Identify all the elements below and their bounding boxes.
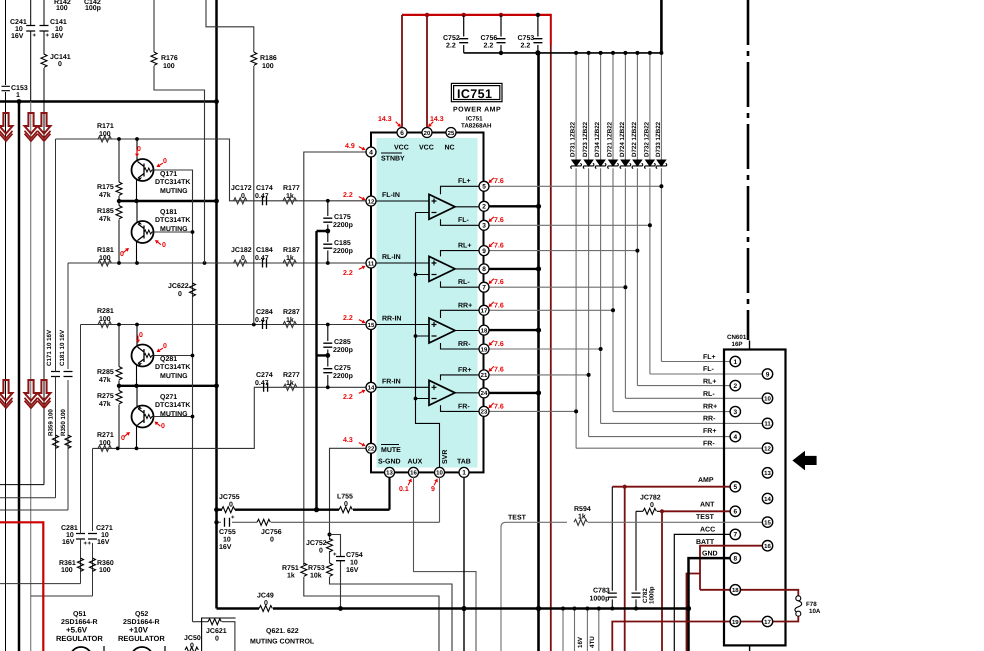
svg-text:8: 8 [733,555,737,562]
svg-text:FL-IN: FL-IN [382,192,400,199]
svg-text:2200p: 2200p [333,347,353,354]
wire: R181 row (RL input) [68,262,371,264]
node [117,199,121,203]
pin 22 IC751 [366,443,376,453]
svg-text:C281: C281 [61,525,78,532]
svg-text:14.3: 14.3 [378,116,392,123]
svg-text:16V: 16V [11,33,24,40]
red hollow arrow 1c [38,113,51,141]
red voltage 0.1 [399,479,412,494]
svg-text:2.2: 2.2 [484,43,494,50]
svg-text:R271: R271 [97,432,114,439]
wire: muting ground row 1 (thick) [118,200,217,202]
wire: GND row (thick) [689,558,731,651]
capacitor C281 (electrolytic) [76,534,85,540]
svg-text:7.6: 7.6 [494,217,504,224]
svg-text:0: 0 [215,636,219,643]
resistor R361 [78,558,84,571]
dash-dot page border [747,0,750,340]
svg-text:C174: C174 [256,185,273,192]
capacitor C756 [500,15,502,53]
svg-text:RR+: RR+ [703,403,717,410]
svg-text:7.6: 7.6 [494,178,504,185]
capacitor C181 (rotated electrolytic) [64,372,73,377]
red hollow arrow 2c [38,380,51,408]
capacitor C274 [264,383,268,392]
transistor Q51 circle [70,647,92,651]
svg-text:100: 100 [56,5,68,12]
pin 6 IC751 [397,128,407,138]
svg-text:10A: 10A [809,608,821,615]
node [326,323,330,327]
red voltage 2.2 [343,192,366,200]
svg-text:L755: L755 [337,494,353,501]
svg-text:11: 11 [764,421,771,428]
wire: L755 thick row [217,509,390,511]
wire: Q621 box partial [202,618,236,651]
svg-text:19: 19 [732,619,739,626]
svg-text:R361: R361 [59,560,76,567]
svg-text:1: 1 [733,359,737,366]
svg-text:18: 18 [732,587,739,594]
svg-text:IC751: IC751 [457,87,492,101]
arrow marker left [792,451,816,471]
svg-text:JC622: JC622 [168,283,189,290]
svg-text:16V: 16V [51,33,64,40]
transistor Q181 [132,201,193,263]
svg-text:0: 0 [178,291,182,298]
svg-text:100p: 100p [85,5,101,12]
inductor L755 [339,507,352,513]
node [326,261,330,265]
resistor R177 [283,198,296,204]
node [585,607,589,611]
resistor R594 [574,519,587,525]
pin 9 IC751 [479,246,489,256]
svg-text:R185: R185 [97,208,114,215]
svg-text:13: 13 [386,470,393,477]
svg-text:D723 1ZB22: D723 1ZB22 [582,121,589,157]
svg-text:47k: 47k [99,191,111,199]
svg-text:C274: C274 [256,372,273,379]
wire: SVR row [217,477,440,522]
wire: thick vertical top right [660,0,663,53]
zener diode D733 1ZB22 [655,51,667,362]
svg-text:FR-IN: FR-IN [382,379,401,386]
red voltage 7.6 [489,217,504,224]
capacitor C175 [327,201,329,231]
svg-text:R287: R287 [283,309,300,316]
wire: output RR+ to connector [489,310,730,411]
pin 17 CN601 [762,616,772,626]
capacitor C752 [463,15,465,53]
red voltage 0 [157,158,168,167]
svg-text:11: 11 [368,260,375,267]
node [499,13,503,17]
wire: AUX drop [414,477,477,651]
svg-text:1k: 1k [286,379,294,387]
wire: drop1 [562,609,564,651]
zener diode D723 1ZB22 [582,51,594,437]
wire: PGND vertical [537,53,540,651]
node [117,137,121,141]
svg-text:1k: 1k [286,192,294,200]
svg-text:AMP: AMP [698,477,714,484]
red voltage 0 [136,332,143,343]
svg-text:0: 0 [344,501,348,508]
wire: CN601 top stub [749,341,751,350]
pin 18 IC751 [479,325,489,335]
svg-text:D721 1ZB22: D721 1ZB22 [607,121,614,157]
svg-text:Q271: Q271 [160,394,177,401]
svg-text:D724 1ZB22: D724 1ZB22 [619,121,626,157]
transistor Q171 [132,139,193,622]
svg-text:10: 10 [350,560,358,567]
svg-text:R171: R171 [97,123,114,130]
pin 23 IC751 [479,406,489,416]
svg-text:FL-: FL- [458,217,470,224]
pin 1 CN601 [730,356,740,366]
pin 11 CN601 [762,418,772,428]
node [686,606,691,611]
resistor R277 [284,384,297,390]
wire: VCC drop to pin 20 [426,15,428,127]
svg-text:C755: C755 [219,529,236,536]
red voltage 4.3 [343,437,366,446]
svg-text:1: 1 [16,92,20,99]
pin 13 IC751 [385,467,395,477]
svg-text:C141: C141 [50,19,67,26]
svg-text:FR+: FR+ [458,367,471,374]
resistor JC621 [193,622,235,651]
svg-text:JC49: JC49 [257,593,274,600]
svg-text:1k: 1k [578,513,586,521]
svg-text:6: 6 [733,509,737,516]
svg-text:C752: C752 [443,35,460,42]
capacitor C284 [263,320,267,329]
svg-text:25: 25 [448,130,455,137]
svg-text:Q621. 622: Q621. 622 [266,628,299,635]
svg-text:0.1: 0.1 [399,486,409,493]
pin 2 IC751 [479,201,489,211]
svg-text:7.6: 7.6 [494,341,504,348]
capacitor C241 (electrolytic) [30,0,32,102]
svg-text:+: + [33,33,37,39]
svg-text:15: 15 [368,322,375,329]
capacitor C153 [2,86,10,90]
svg-text:Q51: Q51 [73,611,86,618]
svg-text:R177: R177 [283,185,300,192]
wire: R176 bias feed [154,0,205,263]
svg-text:3: 3 [482,223,486,230]
resistor R171 [98,136,111,142]
svg-text:100: 100 [99,567,111,574]
svg-text:RR-: RR- [458,341,471,348]
pin 25 IC751 [446,128,456,138]
svg-text:7.6: 7.6 [494,243,504,250]
resistor JC172 [234,198,247,204]
svg-text:GND: GND [702,551,718,558]
node [214,383,219,388]
resistor JC49 [259,606,272,612]
wire: PGND row pin24 [489,392,539,394]
node [597,607,601,611]
svg-text:R753: R753 [308,565,325,572]
svg-text:23: 23 [481,409,488,416]
wire: VCC red top rail [402,14,551,16]
node [117,261,121,265]
svg-text:RL+: RL+ [458,243,471,250]
IC751 cyan body [377,138,478,468]
svg-text:DTC314TK: DTC314TK [155,179,190,186]
node [135,137,139,141]
svg-text:D733 1ZB22: D733 1ZB22 [655,121,662,157]
wire: FR+ tap [441,375,480,380]
resistor R285 [116,367,122,380]
red hollow arrow 1b [25,113,38,141]
svg-text:4: 4 [733,434,737,441]
node [134,384,138,388]
node [660,509,664,513]
svg-text:C285: C285 [334,339,351,346]
svg-text:TEST: TEST [508,515,527,522]
svg-text:1k: 1k [286,254,294,262]
wire: red power wire bottom left [0,522,43,651]
svg-text:10: 10 [764,396,771,403]
red voltage 2.2 [343,266,366,277]
svg-text:24: 24 [481,390,488,397]
pin 8 CN601 [730,553,740,563]
wire: muting ground row 2 (thick) [118,385,217,387]
svg-text:R187: R187 [283,247,300,254]
wire: drop3 [586,609,588,651]
resistor R281 [98,322,111,328]
svg-text:1: 1 [462,470,466,477]
transistor Q52 circle [131,647,153,651]
svg-text:VCC: VCC [394,145,409,152]
IC751 outline [371,133,484,473]
pin 16 CN601 [762,541,772,551]
svg-text:C275: C275 [334,365,351,372]
svg-text:47k: 47k [99,400,111,408]
svg-text:3: 3 [733,409,737,416]
svg-text:JC50: JC50 [184,635,201,642]
svg-text:16: 16 [410,470,417,477]
svg-text:RR-IN: RR-IN [382,316,401,323]
resistor R360 [90,558,96,571]
node [325,353,330,358]
svg-text:14.3: 14.3 [430,116,444,123]
node [425,13,429,17]
node [414,397,418,401]
svg-text:ACC: ACC [700,527,715,534]
wire: main ground spine [215,0,218,609]
svg-text:D732 1ZB22: D732 1ZB22 [643,121,650,157]
wire: thick S-GND vertical with stubs [317,231,328,510]
node [326,199,330,203]
IC751 boxed title [451,83,502,101]
svg-text:C153: C153 [11,85,28,92]
svg-text:1k: 1k [287,572,295,580]
resistor JC182 [234,260,247,266]
svg-text:2200p: 2200p [333,373,353,380]
svg-text:F78: F78 [806,601,817,608]
wire: FR- tap [441,405,480,411]
wire: PGND row pin18 [489,329,539,331]
svg-text:2.2: 2.2 [343,192,353,199]
wire: STNBY line from pin4 [304,152,366,565]
node [573,607,577,611]
wire: signal line x80.5 (RR feed) [0,325,81,584]
svg-text:JC172: JC172 [231,185,252,192]
pin 5 CN601 [730,482,740,492]
capacitor C782 [635,511,637,608]
svg-text:2200p: 2200p [333,222,353,229]
pin 21 IC751 [479,370,489,380]
node [117,323,121,327]
node [536,328,541,333]
svg-text:R359 100: R359 100 [48,409,55,436]
svg-text:0.47: 0.47 [255,255,269,262]
wire: TAB drop [463,477,465,651]
svg-text:10k: 10k [310,572,322,580]
pin 11 IC751 [366,258,376,268]
red voltage 7.6 [489,302,504,310]
pin 8 IC751 [479,264,489,274]
svg-text:FR+: FR+ [703,428,716,435]
red voltage 14.3 [378,116,401,127]
svg-text:10: 10 [101,532,109,539]
pin 14 IC751 [366,382,376,392]
node [634,607,638,611]
svg-text:FR-: FR- [703,440,715,447]
resistor R751 [301,563,307,576]
svg-text:RL-: RL- [458,279,470,286]
svg-text:Q281: Q281 [160,356,177,363]
svg-text:1000p: 1000p [649,586,656,604]
capacitor C171 (rotated electrolytic) [51,372,60,377]
svg-text:0: 0 [229,502,233,509]
svg-text:0: 0 [58,61,62,68]
svg-text:2200p: 2200p [333,248,353,255]
svg-text:RR+: RR+ [458,303,472,310]
svg-text:7.6: 7.6 [494,279,504,286]
wire: pin13 drop [388,478,390,510]
node [499,51,503,55]
svg-text:R594: R594 [574,506,591,513]
svg-text:16: 16 [764,543,771,550]
resistor R185 [116,206,122,219]
resistor JC782 [643,508,656,514]
wire: PGND row pin2 [489,205,539,207]
svg-text:7.6: 7.6 [494,367,504,374]
capacitor C271 (electrolytic) [88,534,97,540]
node [252,323,256,327]
wire: output FL+ to connector [489,186,730,361]
wire: top thick bus [0,100,217,103]
svg-text:SVR: SVR [442,450,449,464]
wire: TEST row [501,522,762,651]
svg-text:9: 9 [431,486,435,493]
svg-text:C171 10 16V: C171 10 16V [46,329,53,366]
pin 16 IC751 [409,467,419,477]
svg-text:C284: C284 [256,309,273,316]
svg-text:REGULATOR: REGULATOR [56,634,103,643]
zener diode D732 1ZB22 [643,51,655,374]
pin 15 CN601 [762,517,772,527]
svg-text:16V: 16V [577,636,584,648]
wire: feedback rail to SVR [416,213,440,473]
svg-text:+: + [46,33,50,39]
node [203,261,207,265]
svg-text:17: 17 [481,308,488,315]
pin 20 IC751 [422,128,432,138]
zener diode D724 1ZB22 [619,51,631,398]
svg-text:FR-: FR- [458,404,470,411]
svg-text:R275: R275 [97,393,114,400]
svg-text:0: 0 [163,158,167,165]
svg-text:JC621: JC621 [206,628,227,635]
svg-text:0: 0 [650,502,654,509]
svg-text:ANT: ANT [700,501,715,508]
svg-text:C783: C783 [593,588,610,595]
svg-text:10: 10 [15,26,23,33]
node [536,390,541,395]
svg-text:0: 0 [139,332,143,339]
pin 15 IC751 [366,320,376,330]
node [135,261,139,265]
svg-text:0: 0 [137,146,141,153]
wire: output RR- to connector [489,349,762,423]
op-amp FR [376,380,479,405]
node [610,607,614,611]
svg-text:0: 0 [270,537,274,544]
resistor JC141 [41,54,47,67]
red voltage 2.2 [343,315,366,323]
node [536,204,541,209]
wire: ACC row [674,534,730,651]
wire: RR- tap [441,343,480,349]
svg-text:100: 100 [99,255,111,262]
node [191,415,195,419]
pin 9 CN601 [762,369,772,379]
svg-text:STNBY: STNBY [381,156,405,163]
red voltage 2.2 [343,390,366,401]
pin 13 CN601 [762,468,772,478]
node [461,606,466,611]
node [134,199,138,203]
capacitor C275 [327,355,329,387]
svg-text:10: 10 [55,26,63,33]
resistor JC622 [190,283,196,296]
svg-text:16P: 16P [732,341,743,348]
red voltage 0 [120,248,129,258]
svg-text:IC751: IC751 [466,116,483,123]
wire: VCC drop to pin 6 [401,15,403,127]
node [214,507,219,512]
node [414,273,418,277]
capacitor C185 [327,231,329,263]
wire: VCC vertical right branch [550,14,552,651]
resistor R271 [98,445,111,451]
svg-text:16V: 16V [219,544,232,551]
svg-text:47k: 47k [99,215,111,223]
red voltage 0 [155,422,166,431]
svg-text:0: 0 [162,242,166,249]
resistor R275 [116,391,122,404]
svg-text:7.6: 7.6 [494,303,504,310]
svg-text:MUTING: MUTING [160,188,188,195]
